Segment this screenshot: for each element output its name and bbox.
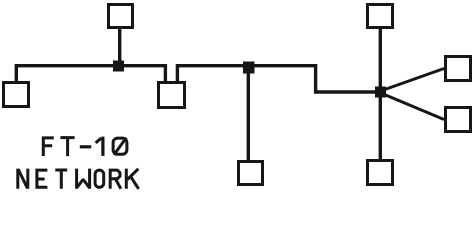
node E top-right square [368, 5, 393, 28]
wire vertical through junction J3 from node E to node F [379, 29, 382, 159]
node D bottom-middle square [239, 162, 263, 185]
wire bus segment left with drop to node B [16, 66, 165, 81]
letter N [18, 169, 28, 189]
wire vertical from junction J2 down to node D [247, 67, 250, 160]
junction J1 [113, 61, 124, 72]
wire diagonal from junction J3 to node H [382, 94, 444, 120]
wire diagonal from junction J3 to node G [382, 69, 444, 91]
node H right-lower square [446, 108, 471, 132]
digit 1 [101, 137, 104, 156]
junction J2 [243, 62, 255, 74]
label FT-10 [42, 136, 127, 156]
digit 0 slashed [113, 138, 127, 154]
node C middle-left square [159, 83, 185, 108]
node B left square [4, 83, 29, 107]
label NETWORK [18, 169, 139, 189]
letter O [95, 170, 104, 187]
node A top-left square [109, 5, 133, 28]
wire bus segment middle from node C to right step down to lower bus [177, 66, 380, 92]
letter W [77, 169, 90, 189]
letter K [126, 169, 138, 189]
letter T [55, 169, 67, 189]
hyphen [80, 145, 91, 148]
letter T [60, 136, 74, 156]
node G right-upper square [446, 57, 471, 81]
letter F [42, 136, 54, 156]
wire stub from node A down to junction J1 [118, 29, 121, 66]
node F bottom-right square [368, 161, 393, 185]
letter R [109, 169, 121, 189]
letter E [35, 169, 47, 189]
junction J3 [375, 87, 386, 98]
